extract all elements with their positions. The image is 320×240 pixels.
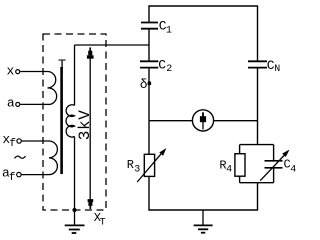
svg-text:4: 4 [226, 164, 232, 175]
svg-text:1: 1 [166, 25, 172, 36]
svg-text:3kV: 3kV [76, 110, 94, 141]
svg-text:x: x [7, 63, 15, 78]
svg-text:T: T [100, 217, 106, 228]
svg-text:3: 3 [134, 164, 140, 175]
svg-text:T: T [58, 57, 66, 73]
svg-text:f: f [9, 172, 16, 184]
svg-text:2: 2 [166, 64, 172, 75]
svg-text:4: 4 [290, 164, 296, 175]
svg-text:a: a [7, 96, 15, 111]
svg-text:N: N [274, 64, 280, 75]
svg-text:R: R [127, 158, 134, 172]
svg-text:C: C [158, 58, 166, 73]
svg-text:δ: δ [140, 77, 148, 92]
svg-text:f: f [9, 138, 16, 150]
